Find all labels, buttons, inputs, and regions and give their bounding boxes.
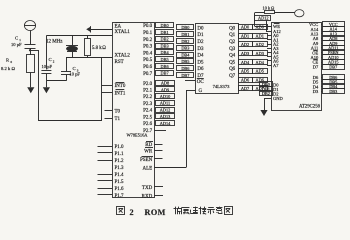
node AD10 (P2.2): [156, 94, 175, 99]
latch pin Q0: [229, 26, 236, 31]
node AD11 (P2.3): [156, 101, 175, 106]
latch pin D6: [197, 67, 204, 72]
node DB6 (latch D6): [177, 66, 194, 71]
pin P2.0: [143, 82, 153, 87]
svg-text:DB6: DB6: [160, 64, 169, 69]
svg-text:AD2: AD2: [241, 42, 249, 47]
svg-text:P1.0: P1.0: [115, 145, 125, 150]
pin P2.3: [143, 102, 153, 107]
svg-text:C: C: [73, 66, 76, 71]
svg-text:RST: RST: [115, 60, 124, 65]
ROM pin A6: [273, 59, 279, 64]
latch pin D5: [197, 60, 204, 65]
svg-text:10 pF: 10 pF: [42, 64, 53, 69]
node DB3 (latch D3): [177, 46, 194, 51]
ROM pin D6: [313, 75, 319, 80]
svg-text:Ω: Ω: [12, 66, 16, 71]
wire stub: [320, 86, 323, 88]
node DB6 (P0.6): [156, 64, 174, 69]
pin P0.6: [143, 65, 153, 70]
wire stub: [320, 52, 323, 54]
node DB3 (ROM right): [323, 89, 345, 94]
svg-text:P1.1: P1.1: [115, 152, 125, 157]
wire T0 stub: [105, 110, 113, 112]
wire stub: [320, 38, 323, 40]
wire stub: [320, 81, 323, 83]
latch pin G: [199, 89, 203, 94]
svg-text:DB0: DB0: [181, 25, 189, 30]
svg-text:A7: A7: [273, 63, 279, 68]
wire XTAL1 net: [46, 35, 112, 37]
latch pin D1: [197, 33, 204, 38]
node DB2 (latch D2): [177, 39, 194, 44]
wire stub: [320, 91, 323, 93]
svg-text:DB6: DB6: [181, 66, 190, 71]
ground: [260, 110, 267, 116]
svg-text:P0.3: P0.3: [143, 45, 153, 50]
svg-text:2: 2: [130, 208, 134, 217]
svg-text:P1.3: P1.3: [115, 166, 125, 171]
svg-text:C: C: [49, 57, 52, 62]
node DB4 (latch D4): [177, 52, 194, 57]
caption ROM: [145, 208, 166, 217]
ROM U3 body: [272, 23, 322, 111]
svg-text:DB5: DB5: [160, 57, 168, 62]
caption 扩: [174, 207, 182, 215]
wire EA: [91, 29, 112, 31]
svg-text:ROM: ROM: [145, 208, 166, 217]
label R0 value: [1, 66, 16, 71]
latch pin Q4: [229, 54, 236, 59]
wire stub: [320, 77, 323, 79]
node DB3 (P0.3): [156, 43, 174, 48]
svg-text:D2: D2: [197, 40, 204, 45]
resistor R1 5.8k: [85, 39, 91, 56]
svg-text:D3: D3: [313, 89, 319, 94]
svg-text:Q4: Q4: [229, 54, 236, 59]
svg-text:AD7: AD7: [241, 86, 250, 91]
svg-text:DB3: DB3: [181, 46, 189, 51]
wire: [46, 81, 48, 87]
wire stub: [320, 62, 323, 64]
svg-text:C: C: [15, 36, 18, 41]
node AD7 (ROM A7): [253, 86, 268, 92]
ROM pin CE: [313, 60, 319, 65]
svg-text:8.2 k: 8.2 k: [1, 66, 11, 71]
svg-text:P1.5: P1.5: [115, 180, 125, 185]
svg-text:AD1: AD1: [256, 33, 264, 38]
wire AD3 stub: [267, 48, 271, 50]
latch pin D3: [197, 47, 204, 52]
ROM pin D7: [313, 64, 319, 69]
latch pin OC: [197, 79, 205, 86]
svg-text:DB4: DB4: [160, 50, 169, 55]
node AD13 (P2.5): [156, 114, 175, 120]
svg-text:D7: D7: [313, 64, 319, 69]
pin WR: [144, 148, 162, 155]
node AD10 (ROM right): [323, 55, 345, 60]
node AD3 (ROM A3): [253, 51, 268, 56]
svg-text:P2.6: P2.6: [143, 122, 153, 127]
pin INT0: [115, 83, 126, 89]
capacitor C3 plates: [61, 72, 71, 81]
svg-text:ALE: ALE: [142, 166, 152, 171]
ROM pin A11: [311, 46, 319, 51]
crystal Y1: [66, 46, 78, 52]
ROM pin VCC: [309, 22, 318, 27]
node AD2 (ROM A2): [253, 42, 268, 48]
node AD8 (ROM right): [323, 36, 345, 42]
pin P1.7: [98, 194, 125, 199]
pin P0.0: [143, 24, 153, 29]
EA terminal symbol: [86, 26, 90, 32]
resistor R2 10k: [265, 11, 275, 14]
svg-text:P2.5: P2.5: [143, 115, 153, 120]
svg-text:P0.0: P0.0: [143, 24, 153, 29]
caption 图(2): [225, 207, 233, 215]
node DB7 (ROM right): [323, 64, 345, 69]
svg-text:D4: D4: [197, 54, 204, 59]
wire stub: [320, 24, 323, 26]
svg-text:Q5: Q5: [229, 60, 236, 65]
ROM pin D3: [313, 89, 319, 94]
node DB0 (P0.0): [156, 23, 174, 28]
svg-text:DB7: DB7: [329, 64, 338, 69]
ROM pin A2: [273, 42, 279, 47]
svg-text:AD12: AD12: [258, 16, 269, 21]
svg-text:DB1: DB1: [181, 32, 189, 37]
svg-text:D3: D3: [197, 47, 204, 52]
wire INT1 stub: [102, 92, 113, 94]
svg-text:DB5: DB5: [181, 59, 189, 64]
ROM pin A9: [313, 41, 319, 46]
svg-text:RXD: RXD: [142, 194, 153, 199]
wire: [46, 36, 48, 70]
svg-text:Q0: Q0: [229, 26, 236, 31]
ROM pin A5: [273, 55, 279, 60]
pin INT1: [115, 90, 126, 97]
svg-text:P2.2: P2.2: [143, 95, 153, 100]
svg-text:P1.2: P1.2: [115, 159, 125, 164]
latch pin Q3: [229, 47, 236, 52]
svg-text:AD4: AD4: [241, 60, 250, 65]
svg-text:EA: EA: [115, 24, 122, 29]
latch pin D7: [197, 74, 204, 79]
caption 连: [190, 207, 198, 214]
ROM pin A1: [273, 38, 279, 43]
pin P0.4: [143, 51, 153, 56]
node DB7 (latch D7): [177, 73, 194, 78]
chip name W78E516A: [127, 132, 149, 137]
node AD7 (latch Q7): [239, 86, 253, 92]
svg-text:AD5: AD5: [241, 69, 249, 74]
ROM name AT29C256: [299, 105, 321, 110]
wire INT0 stub: [102, 85, 113, 87]
label 10 k: [263, 5, 276, 10]
node DB2 (P0.2): [156, 37, 174, 42]
node AD8 (P2.0): [156, 81, 175, 86]
latch U2 body: [196, 24, 239, 94]
node AD6 (latch Q6): [239, 77, 253, 82]
svg-text:D1: D1: [197, 33, 204, 38]
wire stub: [320, 29, 323, 31]
node DB5 (ROM right): [323, 79, 345, 84]
svg-text:AD0: AD0: [256, 25, 264, 30]
node AD12 (P2.4): [156, 107, 175, 112]
svg-text:AD4: AD4: [256, 60, 265, 65]
label R0: [6, 58, 13, 64]
wire AD7 stub: [267, 65, 271, 67]
svg-text:P0.4: P0.4: [143, 51, 153, 56]
svg-text:AD8: AD8: [161, 81, 169, 86]
wire: [46, 74, 48, 81]
svg-text:AD14: AD14: [160, 121, 171, 126]
svg-text:WR: WR: [144, 149, 153, 154]
node DB2 (ROM D2): [260, 91, 273, 96]
wire AD2 stub: [267, 44, 271, 46]
ROM pin A0: [273, 33, 279, 38]
capacitor C1 plates: [25, 45, 36, 49]
latch pin D0: [197, 26, 204, 31]
node AD14 (P2.6): [156, 121, 175, 126]
wire stub: [320, 47, 323, 49]
ROM pin OE: [312, 50, 318, 55]
svg-text:DB7: DB7: [160, 71, 169, 76]
svg-text:AD10: AD10: [160, 94, 171, 99]
svg-text:XTAL1: XTAL1: [115, 30, 131, 35]
svg-text:P2.1: P2.1: [143, 89, 153, 94]
ROM pin D4: [313, 84, 319, 89]
pin P0.2: [143, 38, 153, 43]
wire stub: [320, 57, 323, 59]
caption 展: [182, 207, 190, 214]
label C1 value: [11, 42, 22, 47]
svg-text:Q7: Q7: [229, 74, 236, 79]
node AD1 (latch Q1): [239, 33, 253, 38]
label R1 value: [92, 46, 106, 51]
node AD11 (ROM right): [323, 45, 345, 50]
svg-text:AD12: AD12: [160, 107, 171, 112]
latch pin Q7: [229, 74, 236, 79]
svg-text:AD3: AD3: [256, 51, 264, 56]
wire R1 bottom lead: [87, 56, 89, 58]
wire AD0 stub: [267, 35, 271, 37]
node AD9 (P2.1): [156, 87, 175, 93]
latch pin Q2: [229, 40, 236, 45]
wire RST route: [30, 50, 102, 121]
node AD5 (latch Q5): [239, 69, 253, 74]
pin P0.3: [143, 45, 153, 50]
caption 意: [216, 207, 222, 214]
svg-text:Q1: Q1: [229, 33, 236, 38]
node DB1 (latch D1): [177, 32, 194, 37]
node DB7 (P0.7): [156, 71, 174, 76]
capacitor C2 plates: [41, 71, 51, 74]
node AD2 (latch Q2): [239, 42, 253, 48]
svg-text:P0.2: P0.2: [143, 38, 153, 43]
caption 接: [199, 207, 207, 215]
svg-text:P2.3: P2.3: [143, 102, 153, 107]
svg-text:12 MHz: 12 MHz: [46, 40, 63, 45]
pin P1.2: [98, 159, 125, 164]
node PSEN (ROM right): [323, 50, 345, 56]
pin P2.2: [143, 95, 153, 100]
wire: [29, 48, 31, 55]
node AD0 (ROM A0): [253, 25, 268, 30]
pin XTAL1: [115, 30, 131, 35]
latch pin D2: [197, 40, 204, 45]
svg-text:AD9: AD9: [161, 87, 169, 92]
node AD6 (ROM A6): [253, 77, 268, 82]
wire ALE to latch G: [154, 90, 195, 168]
svg-text:OC: OC: [197, 80, 205, 85]
pin P2.1: [143, 89, 153, 94]
svg-text:P1.6: P1.6: [115, 187, 125, 192]
node DB5 (P0.5): [156, 57, 174, 62]
wire P2.7 stub: [154, 130, 166, 132]
pin XTAL2: [115, 53, 131, 58]
svg-text:XTAL2: XTAL2: [115, 53, 131, 58]
svg-text:AD6: AD6: [241, 77, 250, 82]
svg-text:AD2: AD2: [256, 42, 264, 47]
pin P2.5: [143, 115, 153, 120]
pin PSEN: [140, 157, 163, 163]
svg-text:74LS373: 74LS373: [213, 84, 231, 89]
ROM pin A7: [273, 63, 279, 68]
svg-text:P0.5: P0.5: [143, 58, 153, 63]
pin T0: [115, 109, 121, 114]
svg-text:P1.7: P1.7: [115, 194, 125, 199]
svg-text:D5: D5: [197, 60, 204, 65]
MCU U1 body: [113, 23, 155, 198]
svg-text:AD11: AD11: [160, 101, 170, 106]
svg-text:AD5: AD5: [256, 69, 264, 74]
wire T1 stub: [105, 118, 113, 120]
node DB6 (ROM right): [323, 75, 345, 80]
svg-text:DB2: DB2: [160, 37, 168, 42]
wire XTAL2 net: [66, 57, 112, 59]
wire AD1 stub: [267, 39, 271, 41]
svg-text:INT0: INT0: [115, 84, 126, 89]
svg-text:INT1: INT1: [115, 91, 126, 96]
ROM pin D0: [273, 83, 279, 88]
pin P2.7: [143, 129, 153, 134]
svg-text:P0.1: P0.1: [143, 31, 153, 36]
pin RXD: [142, 194, 163, 199]
wire AD12 to A12: [266, 21, 271, 32]
ROM pin A10: [311, 55, 319, 60]
pin P2.4: [143, 109, 153, 114]
resistor R1 lead: [87, 36, 89, 40]
svg-text:DB2: DB2: [262, 91, 270, 96]
svg-text:10 pF: 10 pF: [11, 42, 22, 47]
node AD15 (ROM right): [323, 60, 345, 65]
svg-text:AD3: AD3: [241, 51, 249, 56]
wire bottom rail: [46, 80, 66, 82]
node DB0 (ROM D0): [260, 82, 273, 88]
svg-text:P0.7: P0.7: [143, 72, 153, 77]
svg-text:10 k: 10 k: [263, 5, 271, 10]
svg-text:5.8 k: 5.8 k: [92, 46, 102, 51]
svg-text:AT29C256: AT29C256: [299, 105, 321, 110]
wire AD4 stub: [267, 52, 271, 54]
node DB4 (ROM right): [323, 84, 345, 90]
ROM pin A4: [273, 50, 279, 55]
pin P0.1: [143, 31, 153, 36]
svg-text:DB1: DB1: [160, 30, 168, 35]
node AD3 (latch Q3): [239, 51, 253, 56]
wire: [30, 31, 32, 45]
latch pin Q5: [229, 60, 236, 65]
pin P2.6: [143, 122, 153, 127]
pin P1.6: [98, 187, 125, 192]
wire OC stub: [185, 80, 195, 82]
svg-text:Ω: Ω: [102, 46, 106, 51]
svg-text:GND: GND: [273, 96, 283, 101]
node AD9 (ROM right): [323, 41, 345, 46]
node AD4 (latch Q4): [239, 60, 253, 65]
caption 图: [117, 207, 125, 215]
caption 示: [207, 208, 215, 215]
ground: [43, 87, 50, 93]
latch pin Q6: [229, 67, 236, 72]
wire WE pull-up: [255, 13, 272, 27]
pin P0.7: [143, 72, 153, 77]
power terminal (circle) for reset branch: [24, 21, 35, 31]
svg-text:Q2: Q2: [229, 40, 236, 45]
svg-text:PSEN: PSEN: [140, 158, 153, 163]
wire: [66, 58, 68, 72]
node AD5 (ROM A5): [253, 69, 268, 74]
pin P1.5: [98, 180, 125, 185]
ROM pin A13: [311, 32, 319, 37]
ROM pin D2: [273, 92, 279, 97]
ROM pin A14: [311, 27, 319, 32]
svg-text:DB3: DB3: [329, 89, 337, 94]
latch pin D4: [197, 54, 204, 59]
svg-text:10 pF: 10 pF: [69, 72, 80, 77]
pin RST: [115, 60, 124, 65]
node DB4 (P0.4): [156, 50, 174, 56]
ROM pin D1: [273, 87, 279, 92]
label C3 value: [69, 72, 80, 77]
svg-text:P2.0: P2.0: [143, 82, 153, 87]
svg-text:DB2: DB2: [181, 39, 189, 44]
caption 2: [130, 208, 134, 217]
svg-text:AD1: AD1: [241, 33, 249, 38]
wire: [274, 12, 295, 14]
pin P1.4: [98, 173, 125, 178]
wire stub: [320, 43, 323, 45]
pin P1.1: [98, 152, 125, 157]
svg-text:P0.6: P0.6: [143, 65, 153, 70]
label 12 MHz: [46, 40, 63, 45]
svg-text:D6: D6: [197, 67, 204, 72]
node VCC (ROM right): [323, 22, 345, 27]
ROM pin A12: [273, 29, 281, 34]
svg-text:P2.4: P2.4: [143, 109, 153, 114]
wire AD6 stub: [267, 60, 271, 62]
label C3: [73, 66, 79, 72]
latch name 74LS373: [213, 84, 231, 89]
wire stub: [320, 66, 323, 68]
pin P1.0: [98, 145, 125, 150]
node DB1 (ROM D1): [260, 86, 273, 91]
node AD12 (ROM A12): [255, 16, 271, 21]
power terminal (circle): [295, 10, 304, 17]
label C2: [49, 57, 55, 63]
pin P0.5: [143, 58, 153, 63]
